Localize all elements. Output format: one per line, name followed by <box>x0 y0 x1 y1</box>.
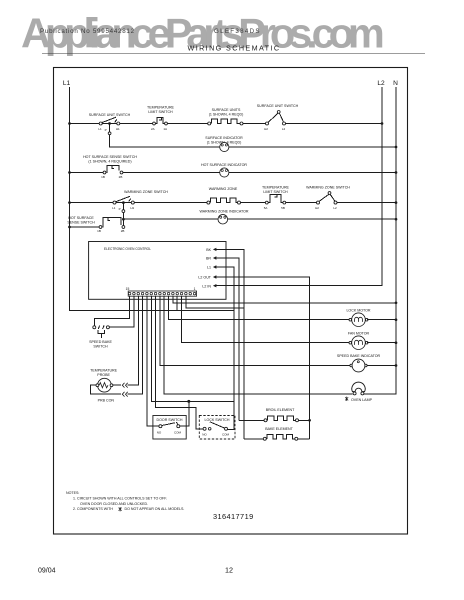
svg-text:L2 IN: L2 IN <box>202 284 211 288</box>
svg-text:H1: H1 <box>116 127 120 131</box>
svg-text:DOOR SWITCH: DOOR SWITCH <box>157 418 183 422</box>
svg-text:2A: 2A <box>151 127 155 131</box>
wire P pickoff row3 <box>122 203 124 210</box>
svg-text:GLEF384DS: GLEF384DS <box>214 28 261 35</box>
svg-text:COM: COM <box>222 432 230 436</box>
svg-text:N: N <box>393 80 398 87</box>
wire element to limit switch row3 <box>241 202 266 204</box>
svg-text:L1: L1 <box>112 206 116 210</box>
svg-text:PRB CON: PRB CON <box>98 399 115 403</box>
wire N bus <box>395 87 397 394</box>
header rule <box>42 52 425 54</box>
wire L1 bus <box>70 87 234 310</box>
svg-text:5B: 5B <box>281 206 285 210</box>
wire L2 OUT from oven control <box>226 277 310 439</box>
wire harness 3 to probe right <box>128 296 139 385</box>
wire harness 6 to door/lock switch COM <box>151 296 234 401</box>
wire warming zone indicator to N <box>228 218 396 220</box>
wire harness 12 to L1 feed line <box>176 296 178 310</box>
svg-text:BROIL ELEMENT: BROIL ELEMENT <box>266 408 295 412</box>
connector strip P1 on oven control <box>128 291 196 296</box>
svg-text:NO: NO <box>157 430 162 434</box>
wire hot surface indicator to N <box>229 172 396 174</box>
svg-text:H1: H1 <box>130 206 134 210</box>
wire row1 L1 to surface unit switch <box>70 123 100 125</box>
svg-text:1: 1 <box>194 287 196 291</box>
wire sense switch to hot surface indicator <box>123 172 220 174</box>
svg-text:H2: H2 <box>315 206 319 210</box>
wire L1 to warming zone switch <box>70 202 114 204</box>
svg-text:TEMPERATURE: TEMPERATURE <box>147 106 174 110</box>
svg-text:SWITCH: SWITCH <box>93 345 108 349</box>
svg-text:P: P <box>105 128 107 132</box>
svg-text:HOT SURFACE SENSE SWITCH: HOT SURFACE SENSE SWITCH <box>83 155 137 159</box>
svg-text:P: P <box>119 207 121 211</box>
svg-text:NOTES:: NOTES: <box>66 491 79 495</box>
svg-text:1. CIRCUIT SHOWN WITH ALL CO: 1. CIRCUIT SHOWN WITH ALL CONTROLS SET T… <box>73 496 167 500</box>
schematic border box <box>54 68 408 535</box>
svg-text:WARMING ZONE SWITCH: WARMING ZONE SWITCH <box>306 186 350 190</box>
wire harness 10 to lock motor <box>169 296 351 320</box>
svg-text:SURFACE UNITS: SURFACE UNITS <box>212 108 241 112</box>
svg-text:LOCK MOTOR: LOCK MOTOR <box>346 309 370 313</box>
svg-text:2B: 2B <box>121 229 125 233</box>
svg-text:OVEN LAMP: OVEN LAMP <box>351 398 373 402</box>
switch lock switch (dashed box) <box>199 416 235 440</box>
svg-text:HOT SURFACE INDICATOR: HOT SURFACE INDICATOR <box>201 163 247 167</box>
wire harness 14 <box>186 296 244 308</box>
wire oven lamp to N corner <box>364 393 396 395</box>
svg-text:PROBE: PROBE <box>97 373 110 377</box>
wire right switch row3 to N <box>286 202 317 204</box>
wire L1 to hot surface sense switch row2 <box>70 172 104 174</box>
wire P to surface indicator line <box>110 135 220 147</box>
svg-text:12: 12 <box>225 566 233 575</box>
svg-text:15: 15 <box>126 287 130 291</box>
svg-text:L2 OUT: L2 OUT <box>198 276 211 280</box>
wire harness 11 to neutral <box>173 296 396 303</box>
wire probe left loop <box>91 385 121 394</box>
svg-text:Publication No 5995442812: Publication No 5995442812 <box>40 28 135 35</box>
svg-text:09/04: 09/04 <box>38 568 56 575</box>
svg-text:LOCK SWITCH: LOCK SWITCH <box>205 418 230 422</box>
svg-text:WARMING ZONE INDICATOR: WARMING ZONE INDICATOR <box>199 209 248 213</box>
svg-text:LIMIT SWITCH: LIMIT SWITCH <box>263 190 288 194</box>
wire right switch to L2 bus <box>286 123 383 125</box>
svg-text:1B: 1B <box>97 229 101 233</box>
svg-text:WARMING ZONE SWITCH: WARMING ZONE SWITCH <box>124 190 168 194</box>
wire element to right switch <box>243 123 266 125</box>
svg-text:SURFACE INDICATOR: SURFACE INDICATOR <box>205 136 243 140</box>
svg-text:SPEED BAKE INDICATOR: SPEED BAKE INDICATOR <box>337 354 381 358</box>
svg-text:WIRING SCHEMATIC: WIRING SCHEMATIC <box>188 44 281 53</box>
svg-text:TEMPERATURE: TEMPERATURE <box>262 186 289 190</box>
svg-text:2B: 2B <box>119 175 123 179</box>
svg-text:L1: L1 <box>98 127 102 131</box>
svg-text:SURFACE UNIT SWITCH: SURFACE UNIT SWITCH <box>89 113 131 117</box>
svg-text:L2: L2 <box>282 127 286 131</box>
wire harness 5 to door switch NO <box>147 296 159 426</box>
svg-text:1A: 1A <box>163 127 167 131</box>
wire H1 to limit switch <box>120 123 153 125</box>
svg-text:SENSE SWITCH: SENSE SWITCH <box>67 221 95 225</box>
svg-text:FAN MOTOR: FAN MOTOR <box>348 332 370 336</box>
wire harness 9 to oven lamp <box>164 296 352 394</box>
svg-text:DO NOT APPEAR ON ALL MODELS.: DO NOT APPEAR ON ALL MODELS. <box>125 507 185 511</box>
wire harness 8 to speed bake indicator <box>160 296 351 365</box>
svg-text:(1 SHOWN, 4 REQD): (1 SHOWN, 4 REQD) <box>209 112 244 116</box>
switch speed bake switch <box>93 326 96 329</box>
svg-text:NO: NO <box>202 432 207 436</box>
wire BK from oven control <box>226 249 244 438</box>
wire L1 to sense switch row4 <box>70 226 100 228</box>
switch door switch <box>153 416 186 440</box>
svg-text:L2: L2 <box>377 80 385 87</box>
svg-text:316417719: 316417719 <box>213 512 254 521</box>
svg-text:BAKE ELEMENT: BAKE ELEMENT <box>265 427 293 431</box>
svg-text:1B: 1B <box>101 175 105 179</box>
svg-text:SPEED BAKE: SPEED BAKE <box>89 340 112 344</box>
svg-text:L2: L2 <box>333 206 337 210</box>
svg-text:L1: L1 <box>63 80 71 87</box>
wire harness 1 to speed bake switch left <box>94 296 129 326</box>
wire P pickoff row1 <box>109 124 111 132</box>
wire door switch COM drop <box>180 401 189 426</box>
svg-text:2. COMPONENTS WITH: 2. COMPONENTS WITH <box>73 507 113 511</box>
svg-text:COM: COM <box>174 430 182 434</box>
wire harness 2 to speed bake switch right <box>109 296 134 327</box>
svg-text:OVEN DOOR CLOSED AND UNLOCKED.: OVEN DOOR CLOSED AND UNLOCKED. <box>80 502 148 506</box>
svg-text:HOT SURFACE: HOT SURFACE <box>68 216 94 220</box>
svg-text:BR: BR <box>206 257 211 261</box>
svg-text:ELECTRONIC OVEN CONTROL: ELECTRONIC OVEN CONTROL <box>104 247 151 251</box>
svg-text:BK: BK <box>206 248 211 252</box>
svg-text:H2: H2 <box>264 127 268 131</box>
svg-text:5A: 5A <box>264 206 268 210</box>
wire BR from oven control <box>226 258 239 420</box>
svg-text:LIMIT SWITCH: LIMIT SWITCH <box>148 110 173 114</box>
wire surface indicator to N <box>229 146 396 148</box>
wire L1 from oven control to lock switch COM <box>226 267 234 429</box>
svg-text:L1: L1 <box>207 266 211 270</box>
svg-text:TEMPERATURE: TEMPERATURE <box>90 368 117 372</box>
wire H1 to warming zone element <box>134 202 207 204</box>
wire harness 13 to fan motor <box>182 296 351 343</box>
connector PRB CON arrows <box>122 383 127 388</box>
svg-text:SURFACE UNIT SWITCH: SURFACE UNIT SWITCH <box>257 104 299 108</box>
lamp oven lamp <box>352 382 365 391</box>
wire limit switch to surface unit element <box>167 123 207 125</box>
IC electronic oven control box <box>89 242 226 300</box>
svg-text:(1 SHOWN, 4 REQUIRED): (1 SHOWN, 4 REQUIRED) <box>88 160 131 164</box>
svg-text:WARMING ZONE: WARMING ZONE <box>209 187 238 191</box>
wire harness 4 to probe left <box>128 296 143 394</box>
label oven lamp with asterisk <box>345 397 348 401</box>
wire harness 7 to lock switch NO <box>156 296 204 429</box>
wire L2 bus <box>226 87 382 286</box>
wire warming zone indicator line <box>123 218 218 220</box>
